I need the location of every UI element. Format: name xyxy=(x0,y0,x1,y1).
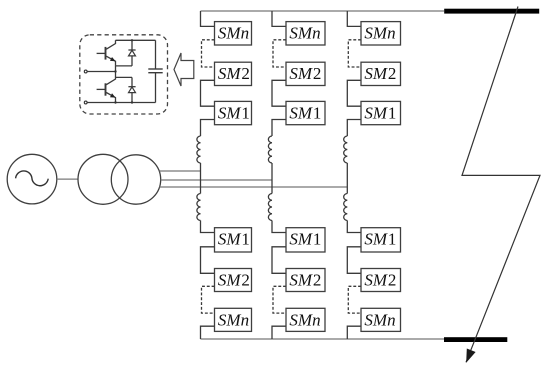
arm inductor upper A xyxy=(197,136,201,163)
dashed wire SM2-SMn lower arm B xyxy=(273,286,286,313)
node P1 terminal xyxy=(84,70,87,73)
wire SM2-SM1 upper arm A xyxy=(201,80,215,106)
SM box SM2 lower arm B xyxy=(286,269,325,292)
wire bus drop to SMn upper arm A xyxy=(201,11,215,26)
submodule detail dashed box xyxy=(80,35,168,114)
svg-text:SM1: SM1 xyxy=(289,103,321,122)
wire SM2-SM1 upper arm B xyxy=(272,80,286,106)
wire SMn to negative bus lower arm B xyxy=(272,326,286,339)
svg-text:SM2: SM2 xyxy=(364,271,396,290)
svg-text:SMn: SMn xyxy=(289,24,320,43)
node P2 terminal xyxy=(84,101,87,104)
arm inductor lower A xyxy=(197,194,201,221)
wire mid vertical xyxy=(115,66,117,78)
svg-text:SM2: SM2 xyxy=(289,64,321,83)
SM box SM2 lower arm A xyxy=(215,269,252,292)
SM box SMn lower arm A xyxy=(215,308,252,331)
wire SM1 to arm inductor upper B xyxy=(272,120,286,137)
wire SMn to negative bus lower arm A xyxy=(201,326,215,339)
phase C wire xyxy=(160,186,348,188)
wire inductor to SM1 lower arm C xyxy=(347,221,361,233)
wire SM1 to arm inductor upper A xyxy=(201,120,215,137)
svg-text:SMn: SMn xyxy=(218,24,249,43)
SM box SMn upper arm B xyxy=(286,22,325,45)
transformer T primary xyxy=(78,154,128,204)
wire inductor to SM1 lower arm B xyxy=(272,221,286,233)
wire SM1-SM2 lower arm A xyxy=(201,247,215,273)
svg-text:SMn: SMn xyxy=(364,310,395,329)
svg-text:SMn: SMn xyxy=(364,24,395,43)
DC line arrowhead xyxy=(466,349,475,363)
SM box SM1 lower arm B xyxy=(286,228,325,252)
svg-text:SM1: SM1 xyxy=(364,230,396,249)
callout arrow to SM detail xyxy=(174,53,194,86)
phase A wire xyxy=(160,170,201,172)
wire inductor to SM1 lower arm A xyxy=(201,221,215,233)
wire emitter to D1 anode xyxy=(116,65,133,67)
dashed wire SMn-SM2 upper arm B xyxy=(273,40,286,67)
diode D1 xyxy=(128,40,135,66)
svg-text:SM2: SM2 xyxy=(289,271,321,290)
wire SMn to negative bus lower arm C xyxy=(347,326,361,339)
wire positive DC bus xyxy=(201,10,445,12)
wire SM1-SM2 lower arm C xyxy=(347,247,361,273)
wire mid node xyxy=(87,71,115,73)
IGBT Q1 xyxy=(97,40,116,66)
arm inductor upper B xyxy=(268,136,272,163)
svg-text:SM1: SM1 xyxy=(289,230,321,249)
svg-text:SM2: SM2 xyxy=(218,271,250,290)
wire bottom rail xyxy=(87,102,155,104)
wire bus drop to SMn upper arm C xyxy=(347,11,361,26)
wire source to transformer xyxy=(57,178,78,180)
dashed wire SMn-SM2 upper arm A xyxy=(202,40,215,67)
diode D2 xyxy=(128,77,135,102)
SM box SM2 upper arm C xyxy=(361,62,401,85)
wire SM2-SM1 upper arm C xyxy=(347,80,361,106)
phase B wire xyxy=(161,179,272,181)
capacitor C xyxy=(148,40,162,102)
wire mid to D2 cathode xyxy=(116,76,133,78)
svg-text:SMn: SMn xyxy=(218,310,249,329)
DC bus bar negative xyxy=(444,337,507,342)
SM box SM2 lower arm C xyxy=(361,269,401,292)
SM box SMn lower arm B xyxy=(286,308,325,331)
arm inductor lower B xyxy=(268,194,272,221)
wire SM1-SM2 lower arm B xyxy=(272,247,286,273)
SM box SM1 upper arm A xyxy=(215,101,252,124)
svg-text:SM1: SM1 xyxy=(364,103,396,122)
wire negative DC bus xyxy=(201,338,445,340)
svg-text:SM2: SM2 xyxy=(364,64,396,83)
AC source G xyxy=(7,154,57,204)
svg-text:SM1: SM1 xyxy=(218,103,250,122)
wire phase leg vertical A xyxy=(200,163,202,194)
wire SM1 to arm inductor upper C xyxy=(347,120,361,137)
DC line zigzag xyxy=(462,7,540,363)
wire phase leg vertical B xyxy=(271,163,273,194)
SM box SM2 upper arm A xyxy=(215,62,252,85)
SM box SMn upper arm C xyxy=(361,22,401,45)
arm inductor lower C xyxy=(344,194,348,221)
dashed wire SM2-SMn lower arm A xyxy=(202,286,215,313)
wire top rail xyxy=(116,39,156,41)
wire bus drop to SMn upper arm B xyxy=(272,11,286,26)
DC bus bar positive xyxy=(444,9,539,14)
SM box SMn upper arm A xyxy=(215,22,252,45)
dashed wire SM2-SMn lower arm C xyxy=(348,286,361,313)
SM box SM1 lower arm C xyxy=(361,228,401,252)
SM box SM1 lower arm A xyxy=(215,228,252,252)
svg-text:SM2: SM2 xyxy=(218,64,250,83)
arm inductor upper C xyxy=(344,136,348,163)
transformer T secondary xyxy=(111,155,160,204)
wire phase leg vertical C xyxy=(346,163,348,194)
SM box SMn lower arm C xyxy=(361,308,401,331)
SM box SM1 upper arm C xyxy=(361,101,401,124)
junction dots xyxy=(131,39,133,41)
svg-text:SM1: SM1 xyxy=(218,230,250,249)
svg-text:SMn: SMn xyxy=(289,310,320,329)
SM box SM1 upper arm B xyxy=(286,101,325,124)
SM box SM2 upper arm B xyxy=(286,62,325,85)
IGBT Q2 xyxy=(97,77,116,102)
dashed wire SMn-SM2 upper arm C xyxy=(348,40,361,67)
